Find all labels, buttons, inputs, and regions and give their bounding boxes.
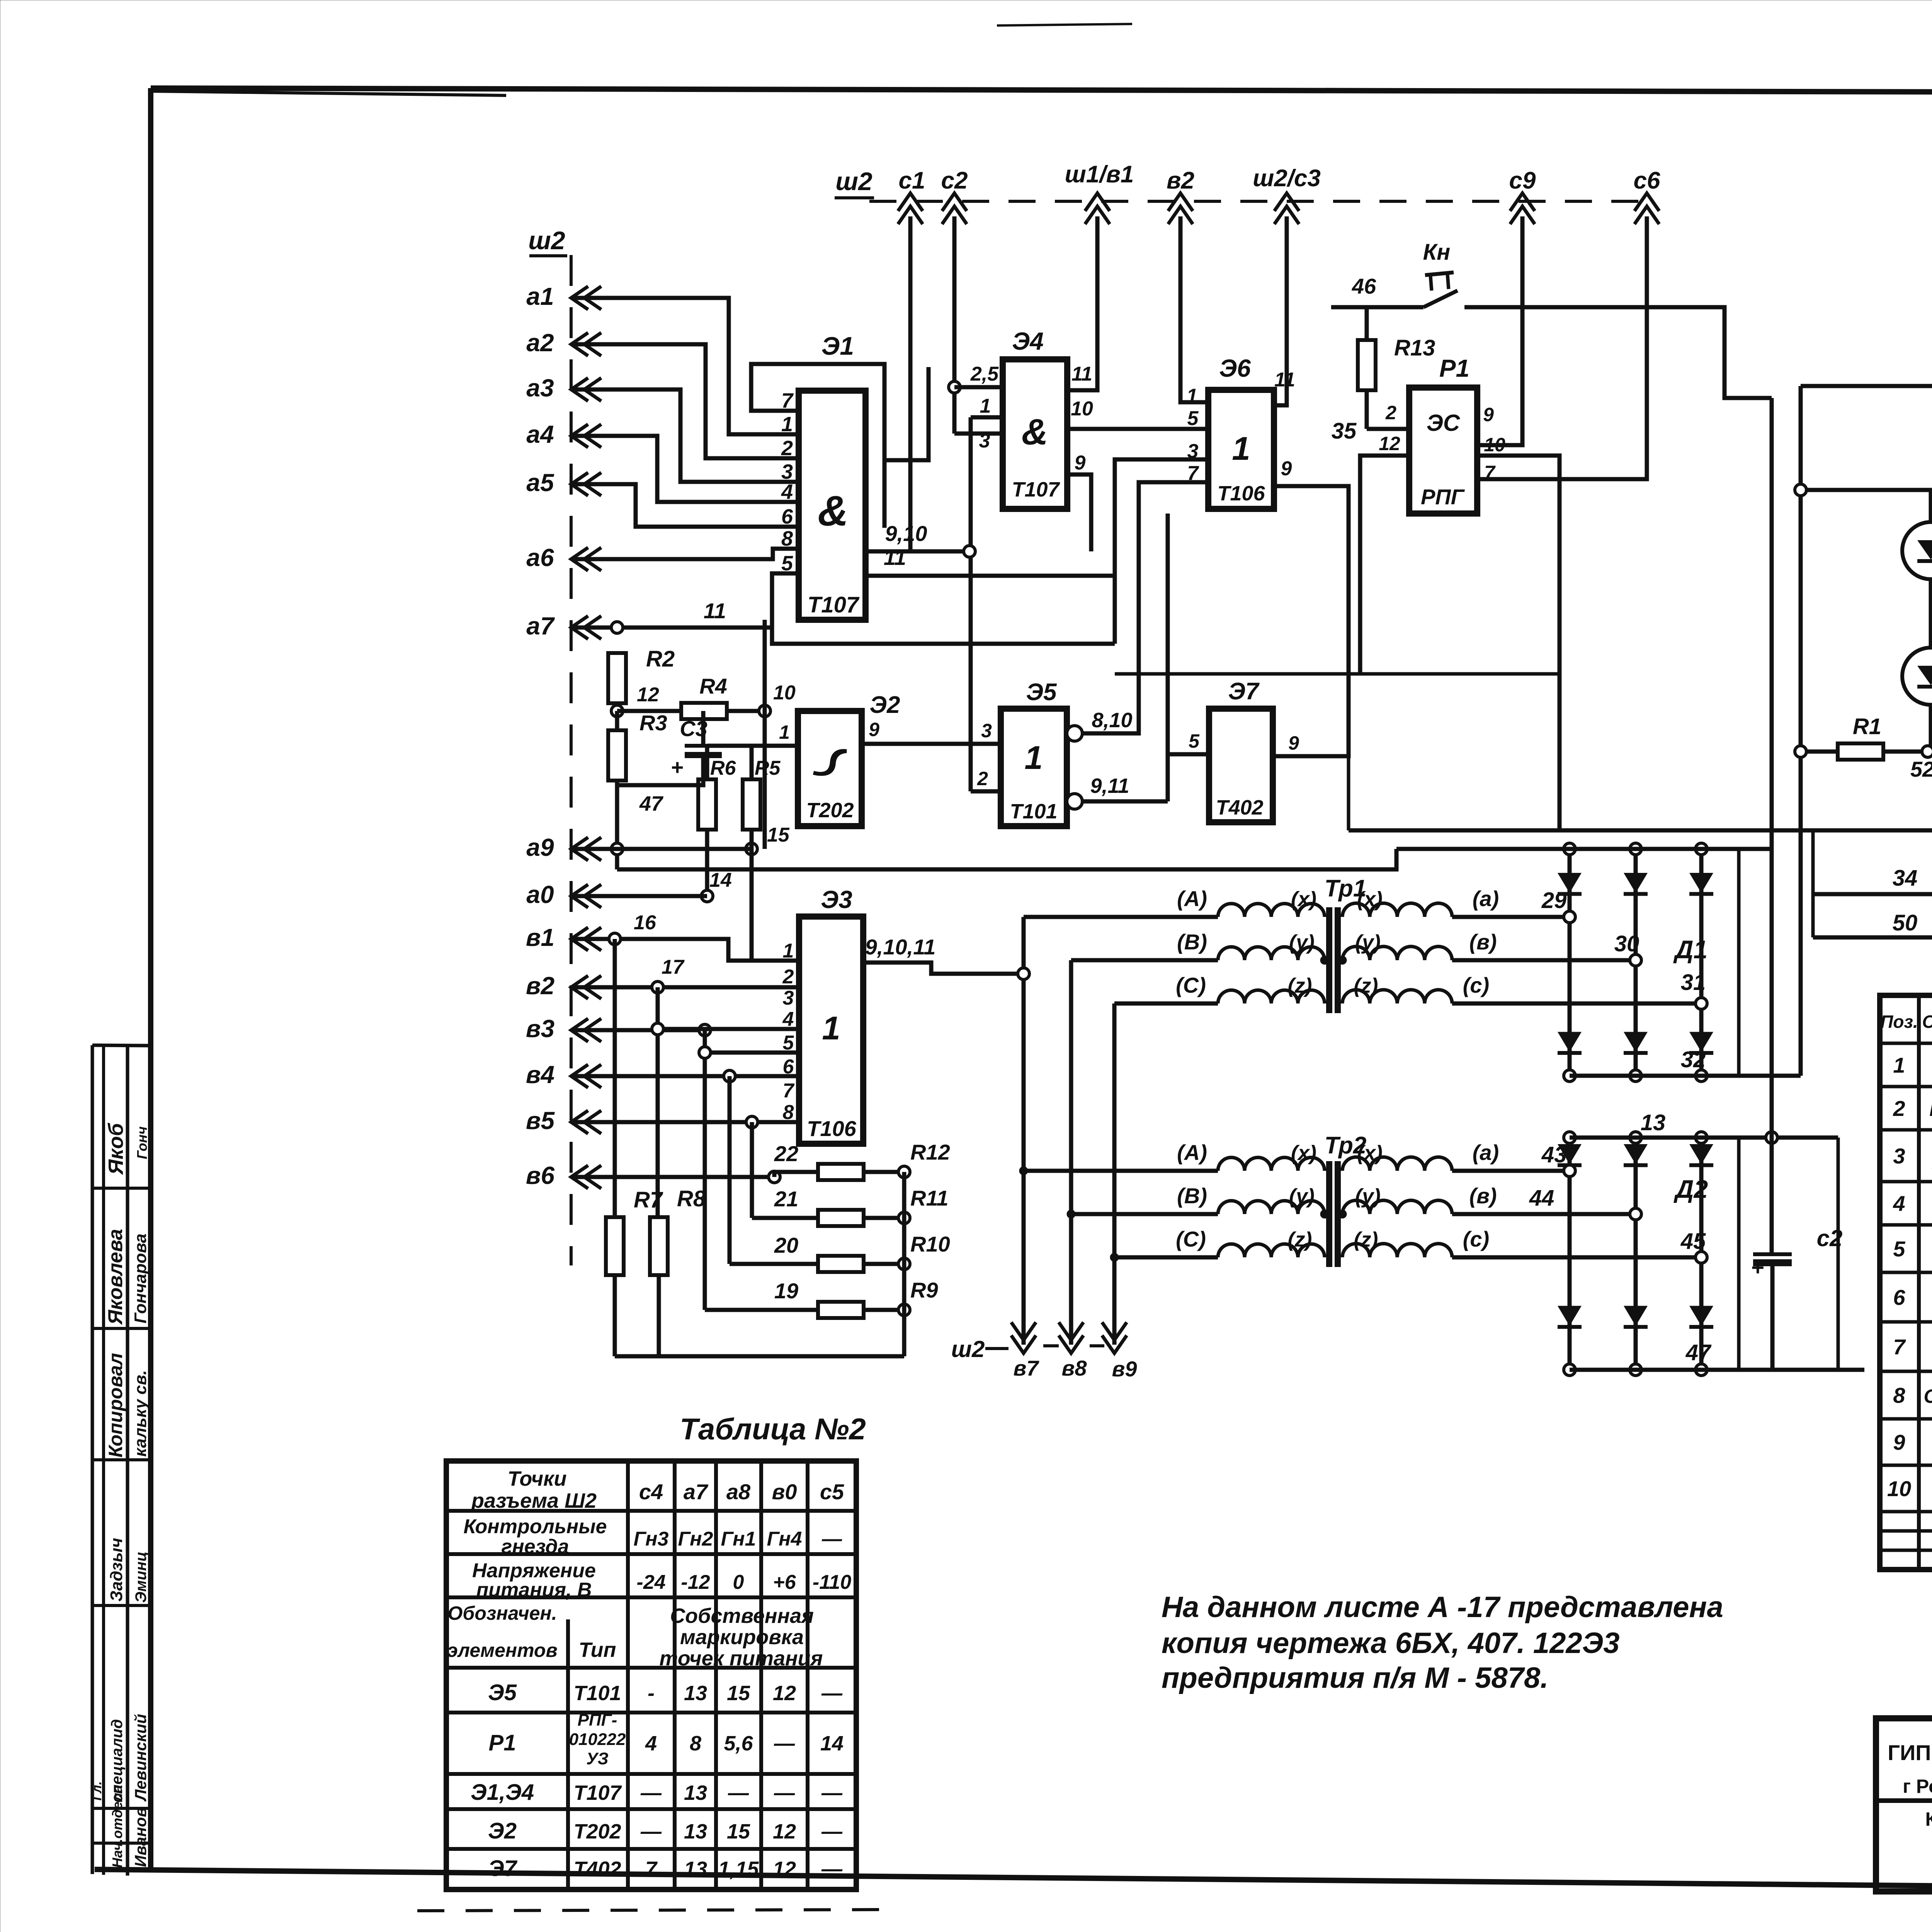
svg-text:13: 13 [1641, 1110, 1666, 1135]
svg-text:22: 22 [774, 1141, 798, 1166]
svg-text:12: 12 [637, 684, 659, 706]
svg-text:20: 20 [774, 1233, 798, 1257]
svg-text:а2: а2 [526, 329, 554, 357]
svg-text:ш2: ш2 [528, 226, 565, 255]
svg-text:Э5: Э5 [1026, 679, 1057, 706]
svg-text:8: 8 [690, 1732, 701, 1755]
svg-text:12: 12 [1379, 433, 1400, 454]
svg-text:Т101: Т101 [1010, 800, 1057, 823]
svg-text:Таблица №2: Таблица №2 [680, 1412, 866, 1446]
svg-text:R1: R1 [1853, 714, 1881, 739]
svg-text:-110: -110 [813, 1571, 851, 1594]
svg-text:(у): (у) [1355, 931, 1381, 954]
svg-text:Гн1: Гн1 [721, 1528, 756, 1550]
svg-text:Яковлева: Яковлева [104, 1229, 127, 1325]
svg-text:31: 31 [1681, 970, 1706, 995]
svg-text:Э1,Э4: Э1,Э4 [471, 1780, 534, 1805]
svg-text:Т107: Т107 [573, 1781, 622, 1804]
svg-text:На данном листе А -17 п: На данном листе А -17 представлена [1162, 1591, 1723, 1624]
svg-text:а7: а7 [684, 1480, 709, 1504]
svg-text:30: 30 [1614, 931, 1639, 956]
svg-text:гнезда: гнезда [502, 1536, 569, 1558]
svg-text:-24: -24 [636, 1571, 665, 1594]
svg-text:9: 9 [1893, 1430, 1905, 1454]
svg-text:7: 7 [1893, 1335, 1906, 1359]
svg-text:в2: в2 [526, 972, 554, 1000]
svg-text:3: 3 [783, 987, 794, 1009]
svg-text:(В): (В) [1177, 930, 1207, 954]
svg-text:с4: с4 [639, 1480, 663, 1504]
svg-text:Кн: Кн [1423, 240, 1451, 265]
svg-text:в6: в6 [526, 1162, 555, 1189]
svg-text:11: 11 [1071, 363, 1092, 385]
svg-text:ГИПРОСТРОЙДОРМАШ: ГИПРОСТРОЙДОРМАШ [1888, 1740, 1932, 1765]
svg-text:35: 35 [1332, 418, 1357, 444]
svg-text:7: 7 [645, 1857, 658, 1881]
svg-text:разъема Ш2: разъема Ш2 [471, 1489, 597, 1512]
svg-text:5: 5 [1189, 730, 1200, 752]
svg-text:Обознач.: Обознач. [1922, 1012, 1932, 1032]
svg-text:Э7: Э7 [488, 1856, 518, 1881]
svg-text:Гн2: Гн2 [678, 1528, 713, 1550]
svg-text:Р1: Р1 [1439, 354, 1469, 382]
svg-text:4: 4 [645, 1732, 657, 1755]
svg-text:13: 13 [684, 1781, 707, 1804]
svg-text:7: 7 [783, 1080, 795, 1102]
svg-text:-: - [648, 1682, 655, 1705]
svg-text:R8: R8 [677, 1186, 706, 1211]
svg-text:в1: в1 [526, 923, 554, 951]
svg-text:16: 16 [634, 912, 656, 934]
svg-text:29: 29 [1541, 888, 1567, 913]
svg-text:Контрольные: Контрольные [464, 1515, 607, 1538]
svg-text:R3: R3 [639, 711, 667, 735]
svg-text:13: 13 [684, 1682, 707, 1705]
svg-text:(x): (x) [1291, 888, 1316, 911]
svg-text:(z): (z) [1288, 974, 1312, 997]
svg-text:а9: а9 [526, 833, 554, 861]
svg-text:9,10,11: 9,10,11 [865, 935, 936, 959]
svg-text:Т106: Т106 [807, 1116, 856, 1141]
svg-text:1: 1 [1024, 740, 1043, 776]
svg-text:11: 11 [704, 599, 726, 623]
svg-text:1: 1 [779, 721, 790, 743]
svg-text:Э2: Э2 [869, 692, 900, 718]
svg-text:R1,R14: R1,R14 [1929, 1099, 1932, 1120]
svg-text:10: 10 [1887, 1476, 1911, 1501]
svg-text:9,11: 9,11 [1090, 774, 1129, 798]
svg-text:R6: R6 [710, 757, 736, 779]
svg-text:с6: с6 [1634, 167, 1660, 194]
svg-text:в8: в8 [1062, 1356, 1087, 1380]
svg-text:Эминц: Эминц [133, 1551, 150, 1603]
svg-text:—: — [774, 1732, 795, 1755]
svg-text:Э7: Э7 [1228, 678, 1260, 705]
svg-text:3: 3 [981, 720, 992, 742]
svg-text:Задзыч: Задзыч [107, 1538, 126, 1602]
svg-text:(x): (x) [1357, 1141, 1383, 1165]
svg-text:в2: в2 [1167, 167, 1194, 194]
svg-text:Якоб: Якоб [104, 1122, 128, 1175]
svg-text:Э2: Э2 [488, 1818, 517, 1844]
svg-text:R2: R2 [646, 646, 675, 672]
svg-text:2: 2 [977, 768, 988, 789]
svg-text:+: + [1751, 1255, 1764, 1280]
svg-text:ЭС: ЭС [1427, 410, 1461, 436]
svg-text:5: 5 [1187, 407, 1199, 430]
svg-text:14: 14 [820, 1732, 844, 1755]
svg-text:14: 14 [709, 869, 732, 891]
svg-text:(в): (в) [1469, 930, 1497, 954]
svg-text:Точки: Точки [507, 1467, 566, 1490]
svg-text:9: 9 [1483, 404, 1494, 425]
svg-text:8: 8 [1893, 1383, 1905, 1408]
svg-text:УЗ: УЗ [586, 1749, 609, 1768]
svg-text:9: 9 [869, 719, 879, 740]
svg-text:Иванов: Иванов [131, 1807, 150, 1867]
svg-text:с9: с9 [1509, 167, 1536, 194]
svg-text:(x): (x) [1357, 888, 1383, 911]
svg-text:R7: R7 [634, 1187, 663, 1213]
svg-text:в3: в3 [526, 1015, 554, 1043]
svg-text:Левинский: Левинский [131, 1714, 150, 1802]
svg-text:—: — [640, 1820, 662, 1843]
svg-text:19: 19 [774, 1279, 798, 1303]
svg-text:Т202: Т202 [573, 1820, 621, 1843]
svg-text:Гончарова: Гончарова [131, 1233, 150, 1323]
svg-text:R12: R12 [910, 1140, 950, 1164]
svg-text:Поз.: Поз. [1880, 1012, 1918, 1032]
svg-text:Т402: Т402 [1216, 796, 1263, 819]
svg-text:Гонч: Гонч [134, 1126, 150, 1159]
svg-text:маркировка: маркировка [680, 1626, 804, 1649]
svg-text:17: 17 [662, 956, 685, 978]
svg-text:1: 1 [1893, 1053, 1905, 1077]
svg-text:2: 2 [782, 966, 794, 988]
svg-text:питания, В: питания, В [476, 1579, 592, 1601]
svg-text:15: 15 [727, 1682, 750, 1705]
svg-text:&: & [1022, 412, 1048, 452]
svg-text:(а): (а) [1473, 886, 1499, 911]
svg-text:1: 1 [1232, 430, 1250, 467]
svg-text:ш1/в1: ш1/в1 [1065, 161, 1134, 188]
svg-text:4: 4 [1893, 1191, 1905, 1216]
svg-text:2,5: 2,5 [970, 363, 999, 385]
svg-text:с2: с2 [1817, 1225, 1843, 1251]
svg-text:5,6: 5,6 [724, 1732, 753, 1755]
svg-text:Э4: Э4 [1012, 327, 1044, 355]
svg-text:а0: а0 [526, 881, 554, 908]
svg-text:с1: с1 [899, 167, 925, 194]
svg-text:010222: 010222 [569, 1730, 626, 1749]
svg-text:1: 1 [822, 1010, 840, 1047]
svg-text:(z): (z) [1354, 1228, 1378, 1251]
svg-text:1: 1 [980, 395, 991, 417]
svg-text:г Ростов-на-Дону 1976г: г Ростов-на-Дону 1976г [1903, 1776, 1932, 1797]
svg-text:3: 3 [1893, 1144, 1905, 1168]
svg-text:(z): (z) [1354, 974, 1378, 997]
svg-text:3: 3 [979, 430, 990, 452]
svg-text:+: + [671, 755, 684, 779]
svg-text:(x): (x) [1291, 1141, 1316, 1165]
svg-text:0: 0 [733, 1571, 744, 1594]
svg-text:с5: с5 [820, 1480, 844, 1504]
svg-text:2: 2 [1893, 1096, 1905, 1121]
svg-text:9: 9 [1288, 732, 1299, 754]
svg-text:9: 9 [1281, 457, 1292, 480]
svg-text:Д2: Д2 [1673, 1175, 1708, 1203]
svg-text:(в): (в) [1469, 1184, 1497, 1208]
svg-text:Р1: Р1 [489, 1730, 516, 1755]
svg-text:Гл.: Гл. [90, 1781, 104, 1801]
svg-text:КОМПРЕССОРНАЯ: КОМПРЕССОРНАЯ [1925, 1808, 1932, 1830]
svg-text:в7: в7 [1014, 1356, 1040, 1380]
svg-text:R9: R9 [910, 1278, 938, 1302]
svg-text:6: 6 [1893, 1285, 1905, 1310]
svg-text:Гн4: Гн4 [767, 1528, 802, 1550]
svg-text:Гн3: Гн3 [634, 1528, 669, 1550]
svg-text:Т202: Т202 [806, 799, 854, 822]
svg-text:+6: +6 [773, 1571, 796, 1594]
svg-text:45: 45 [1680, 1229, 1706, 1254]
svg-text:R11: R11 [910, 1186, 949, 1210]
svg-text:РПГ: РПГ [1421, 485, 1465, 509]
svg-text:2: 2 [1385, 402, 1396, 423]
svg-text:в5: в5 [526, 1107, 555, 1134]
svg-text:46: 46 [1352, 274, 1376, 298]
svg-text:Тип: Тип [579, 1638, 616, 1662]
svg-text:21: 21 [774, 1187, 798, 1211]
svg-text:13: 13 [684, 1820, 707, 1843]
svg-text:Т107: Т107 [1012, 478, 1060, 501]
svg-text:Э5: Э5 [488, 1680, 517, 1705]
svg-text:47: 47 [639, 792, 664, 815]
svg-text:R13: R13 [1394, 335, 1435, 361]
svg-text:Т402: Т402 [573, 1857, 621, 1881]
svg-text:ш2: ш2 [951, 1336, 985, 1362]
svg-text:(С): (С) [1176, 1227, 1206, 1251]
svg-text:а1: а1 [526, 282, 554, 310]
svg-text:(z): (z) [1288, 1228, 1312, 1251]
svg-text:СТ1,СТ2: СТ1,СТ2 [1924, 1386, 1932, 1407]
svg-text:&: & [818, 487, 848, 535]
svg-text:11: 11 [884, 545, 906, 570]
svg-text:в9: в9 [1112, 1357, 1137, 1381]
svg-text:Э6: Э6 [1219, 354, 1251, 382]
svg-text:а5: а5 [526, 469, 554, 497]
svg-text:с2: с2 [941, 167, 968, 194]
svg-text:элементов: элементов [447, 1639, 557, 1661]
svg-text:R5: R5 [755, 757, 781, 779]
svg-text:50: 50 [1893, 910, 1918, 935]
svg-text:РПГ-: РПГ- [578, 1711, 617, 1730]
svg-text:-12: -12 [681, 1571, 710, 1594]
svg-text:(с): (с) [1463, 973, 1489, 997]
svg-text:12: 12 [773, 1682, 796, 1705]
svg-text:Нач.отдела: Нач.отдела [109, 1785, 125, 1868]
svg-text:52: 52 [1910, 757, 1932, 781]
svg-text:47: 47 [1685, 1340, 1712, 1365]
svg-text:а3: а3 [526, 374, 554, 402]
svg-text:(у): (у) [1355, 1185, 1381, 1208]
svg-text:—: — [821, 1857, 843, 1881]
svg-text:—: — [821, 1820, 843, 1843]
svg-text:10: 10 [773, 682, 796, 704]
svg-text:(В): (В) [1177, 1184, 1207, 1208]
svg-text:(у): (у) [1289, 1185, 1315, 1208]
svg-text:ш2/с3: ш2/с3 [1253, 165, 1321, 192]
svg-text:(у): (у) [1289, 931, 1315, 954]
svg-text:13: 13 [684, 1857, 707, 1881]
svg-text:9,10: 9,10 [885, 521, 927, 546]
svg-text:Э3: Э3 [821, 886, 852, 913]
svg-text:1,15: 1,15 [718, 1857, 759, 1881]
svg-text:(А): (А) [1177, 1140, 1207, 1165]
svg-text:кальку св.: кальку св. [131, 1370, 150, 1457]
svg-text:Д1: Д1 [1673, 935, 1708, 964]
svg-text:(с): (с) [1463, 1227, 1489, 1251]
svg-text:—: — [774, 1781, 795, 1804]
svg-text:Т106: Т106 [1217, 482, 1265, 505]
svg-text:—: — [728, 1781, 749, 1804]
svg-text:—: — [821, 1682, 843, 1705]
svg-text:(А): (А) [1177, 886, 1207, 911]
svg-text:в4: в4 [526, 1061, 554, 1088]
svg-text:Собственная: Собственная [670, 1604, 814, 1628]
svg-text:а6: а6 [526, 544, 554, 571]
svg-text:а8: а8 [726, 1480, 751, 1504]
svg-text:10: 10 [1071, 398, 1093, 420]
svg-text:12: 12 [773, 1820, 796, 1843]
svg-text:12: 12 [773, 1857, 796, 1881]
svg-text:ш2: ш2 [835, 167, 872, 196]
svg-text:точек питания: точек питания [660, 1647, 823, 1670]
svg-text:Копировал: Копировал [105, 1353, 126, 1458]
svg-text:R4: R4 [699, 674, 727, 698]
svg-text:а7: а7 [526, 612, 555, 640]
svg-text:Т107: Т107 [808, 592, 860, 617]
svg-text:(С): (С) [1176, 973, 1206, 997]
svg-text:в0: в0 [772, 1480, 797, 1504]
svg-text:(а): (а) [1473, 1140, 1499, 1165]
svg-text:—: — [821, 1528, 842, 1550]
svg-text:—: — [640, 1781, 662, 1804]
svg-text:43: 43 [1541, 1142, 1567, 1167]
svg-text:предприятия п/я М - 5878.: предприятия п/я М - 5878. [1162, 1662, 1548, 1694]
svg-text:9: 9 [1075, 452, 1086, 474]
svg-text:Обозначен.: Обозначен. [447, 1602, 557, 1624]
svg-text:Э1: Э1 [821, 332, 854, 360]
svg-text:Т101: Т101 [573, 1682, 621, 1705]
svg-text:а4: а4 [526, 420, 554, 448]
svg-text:15: 15 [767, 824, 790, 846]
svg-text:34: 34 [1893, 866, 1918, 891]
svg-text:15: 15 [727, 1820, 750, 1843]
svg-text:8,10: 8,10 [1092, 709, 1132, 732]
svg-text:5: 5 [1893, 1237, 1905, 1261]
svg-text:32: 32 [1681, 1047, 1706, 1072]
svg-text:копия чертежа 6БХ, 407. 122Э: копия чертежа 6БХ, 407. 122Э3 [1162, 1627, 1620, 1660]
svg-text:R10: R10 [910, 1232, 950, 1256]
svg-text:44: 44 [1529, 1185, 1554, 1211]
svg-text:—: — [821, 1781, 843, 1804]
